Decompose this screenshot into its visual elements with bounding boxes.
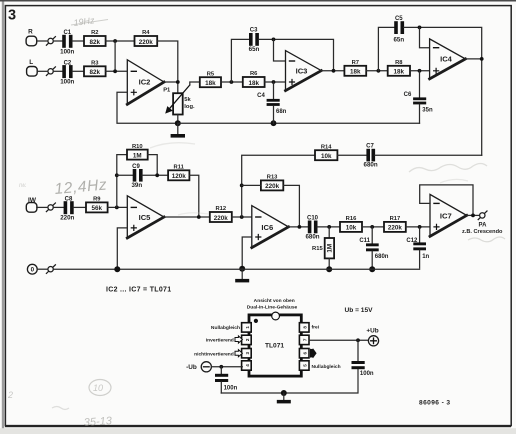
svg-text:18k: 18k — [394, 69, 405, 76]
resistor R14 — [315, 144, 337, 160]
node IC4 output — [480, 57, 484, 61]
wire pin 7 to +Ub — [309, 339, 368, 341]
svg-text:C2: C2 — [64, 60, 72, 66]
svg-text:220k: 220k — [265, 183, 280, 190]
wire IC2 + input to ground rail — [117, 92, 178, 123]
connector (PA output jack) — [478, 211, 487, 220]
svg-text:R10: R10 — [132, 144, 143, 150]
pin 6 — [299, 349, 309, 358]
svg-text:IC2: IC2 — [139, 78, 151, 87]
resistor R4 — [135, 30, 158, 46]
svg-text:100n: 100n — [224, 385, 238, 391]
svg-text:1M: 1M — [327, 244, 334, 253]
wire junction vertical R2 node to L node — [114, 41, 116, 71]
node P1 ground junction — [175, 120, 181, 126]
wire IC2 output — [164, 81, 178, 83]
wire 0V rail — [37, 268, 419, 270]
arrow into pin 2 — [235, 336, 242, 343]
svg-text:IC5: IC5 — [139, 213, 152, 222]
svg-text:86096 - 3: 86096 - 3 — [419, 400, 450, 407]
arrow into pin 3 — [235, 350, 242, 357]
svg-text:R5: R5 — [207, 71, 215, 77]
svg-text:1M: 1M — [133, 152, 142, 159]
capacitor C3 — [249, 28, 260, 54]
op-amp IC5 — [127, 196, 164, 238]
svg-text:z.B. Crescendo: z.B. Crescendo — [462, 229, 503, 235]
svg-text:R3: R3 — [91, 61, 99, 67]
node R15 tap — [327, 225, 331, 229]
connector (0 jack) — [46, 265, 55, 274]
op-amp IC4 — [430, 39, 466, 79]
capacitor C6 — [404, 71, 433, 123]
svg-text:nichtinvertierend: nichtinvertierend — [194, 351, 234, 357]
svg-text:4: 4 — [245, 364, 250, 367]
resistor R3 — [84, 61, 106, 77]
svg-text:R16: R16 — [346, 216, 357, 222]
svg-text:680n: 680n — [305, 234, 319, 241]
capacitor C1 — [60, 30, 74, 55]
svg-text:C9: C9 — [132, 164, 140, 170]
node C9 left — [115, 173, 119, 177]
pin 5 — [299, 361, 309, 370]
svg-text:C11: C11 — [359, 238, 370, 244]
wire node up to C3 — [231, 39, 249, 82]
svg-text:56k: 56k — [92, 205, 103, 212]
input terminal IW — [26, 197, 37, 212]
svg-text:68n: 68n — [276, 109, 287, 115]
svg-text:R8: R8 — [395, 60, 403, 66]
pin 2 — [242, 335, 252, 344]
terminal +Ub — [366, 327, 378, 346]
node C9/R10/R11 — [155, 173, 159, 177]
svg-text:18k: 18k — [205, 80, 216, 87]
capacitor 100n (right decoupling) — [352, 340, 374, 377]
svg-text:18k: 18k — [350, 69, 361, 76]
svg-text:220k: 220k — [139, 39, 154, 46]
svg-text:R6: R6 — [250, 71, 258, 77]
svg-text:IC2 ... IC7 = TL071: IC2 ... IC7 = TL071 — [106, 287, 171, 294]
svg-text:35-13: 35-13 — [83, 415, 113, 429]
node C4 tap — [272, 80, 276, 84]
resistor R15 — [312, 227, 334, 269]
svg-text:C6: C6 — [404, 92, 412, 98]
node decoupling tap left — [219, 365, 223, 369]
wire IC7 feedback loop — [420, 185, 473, 216]
svg-text:6: 6 — [303, 351, 308, 354]
wire P1 wiper to R5 — [190, 82, 200, 85]
wire IC6 output to C10 — [289, 226, 308, 228]
wire C5 to IC4 output vertical — [404, 27, 482, 155]
svg-text:680n: 680n — [364, 161, 378, 168]
capacitor C4 — [257, 82, 287, 123]
svg-text:65n: 65n — [393, 36, 404, 43]
label PA output — [462, 222, 503, 234]
wire bottom supply rail — [221, 369, 358, 393]
svg-text:R13: R13 — [267, 175, 278, 181]
svg-text:C12: C12 — [406, 238, 418, 244]
pin 3 — [242, 349, 252, 358]
svg-text:10k: 10k — [346, 225, 357, 232]
op-amp IC3 — [286, 51, 322, 91]
svg-text:log.: log. — [184, 104, 195, 110]
wire top ground rail — [178, 122, 420, 124]
node summing junction — [113, 69, 117, 73]
svg-text:220k: 220k — [388, 225, 403, 232]
svg-text:3: 3 — [245, 351, 250, 354]
svg-text:frei: frei — [312, 325, 320, 331]
capacitor C2 — [60, 60, 74, 85]
resistor R17 — [384, 216, 406, 232]
svg-text:P1: P1 — [163, 87, 171, 93]
node R11 output junction — [197, 215, 201, 219]
svg-text:C4: C4 — [257, 93, 265, 99]
svg-text:100n: 100n — [360, 371, 374, 377]
connector (R jack) — [46, 37, 55, 46]
svg-text:82k: 82k — [90, 39, 101, 46]
svg-text:39n: 39n — [131, 182, 142, 189]
svg-text:invertierend: invertierend — [206, 338, 234, 344]
resistor R13 — [261, 175, 283, 191]
wire R14 to C7 — [337, 154, 366, 156]
pin 1 — [242, 323, 252, 332]
op-amp IC2 — [127, 60, 164, 105]
wire R2 to R4 — [106, 40, 135, 42]
svg-text:C5: C5 — [395, 16, 403, 22]
resistor R9 — [86, 197, 108, 213]
svg-text:35n: 35n — [422, 107, 433, 113]
capacitor C8 — [60, 196, 74, 221]
svg-text:2: 2 — [245, 338, 250, 341]
svg-text:100n: 100n — [60, 48, 74, 55]
wire P1 bottom to ground — [177, 115, 179, 124]
wire R6 to IC3 + input — [265, 81, 286, 83]
node R13 output junction — [298, 225, 302, 229]
capacitor C12 — [406, 227, 429, 268]
node ground on rail — [281, 390, 287, 396]
svg-text:R11: R11 — [174, 165, 185, 171]
wire node up to C5 — [378, 27, 394, 70]
svg-text:R14: R14 — [321, 144, 332, 150]
wire IC6 + input to 0V rail — [242, 237, 252, 269]
resistor R12 — [210, 206, 232, 222]
resistor R7 — [344, 60, 366, 76]
wire R7 to R8 — [366, 70, 388, 72]
node C11 on rail — [369, 266, 375, 272]
svg-text:R: R — [28, 28, 33, 35]
input terminal 0 — [27, 264, 37, 274]
svg-text:Nullabgleich: Nullabgleich — [211, 325, 240, 331]
pin 4 — [242, 361, 252, 370]
potentiometer P1 — [163, 85, 195, 115]
wire R8 to IC4 + input — [410, 70, 430, 72]
node R13 tap — [240, 184, 244, 188]
svg-text:C8: C8 — [65, 196, 73, 202]
svg-text:R9: R9 — [93, 197, 101, 203]
node IC7 output — [471, 214, 475, 218]
resistor R5 — [200, 71, 221, 87]
node IC6 ground junction — [239, 266, 245, 272]
svg-text:10k: 10k — [321, 153, 332, 160]
svg-text:R12: R12 — [215, 206, 226, 212]
svg-text:65n: 65n — [249, 46, 260, 53]
svg-text:Ansicht von oben: Ansicht von oben — [254, 298, 295, 304]
svg-text:C3: C3 — [250, 28, 258, 34]
wire R10 right down to C9 node — [148, 155, 158, 176]
node R15 on rail — [326, 266, 332, 272]
svg-text:Nullabgleich: Nullabgleich — [312, 364, 341, 370]
svg-text:+Ub: +Ub — [366, 327, 378, 334]
svg-text:220n: 220n — [60, 215, 74, 222]
svg-text:120k: 120k — [172, 173, 187, 180]
pin 7 — [299, 335, 309, 344]
wire C8 to R9 — [73, 206, 86, 208]
wire R3 to IC2 inverting input — [106, 70, 128, 72]
wire C2 to R3 — [72, 70, 84, 72]
svg-text:TL071: TL071 — [265, 343, 284, 350]
resistor R16 — [340, 216, 362, 232]
wire -Ub to pin 4 — [211, 366, 242, 368]
op-amp IC6 — [252, 206, 289, 248]
svg-text:10: 10 — [93, 383, 103, 393]
resistor R10 — [127, 144, 148, 160]
wire IC5 + input to 0V rail — [117, 228, 127, 269]
svg-text:R7: R7 — [352, 60, 359, 66]
wire L to C2 — [37, 70, 62, 72]
wire IC3 output to R7 — [321, 70, 344, 72]
wire feedback to IC3 inverting input — [274, 39, 286, 61]
arrow out of pin 6 (output) — [310, 348, 317, 358]
svg-text:220k: 220k — [214, 215, 229, 222]
wire R17 to IC7 + input — [406, 226, 430, 228]
svg-text:R15: R15 — [312, 246, 323, 252]
svg-text:0: 0 — [31, 267, 35, 274]
op-amp IC7 — [430, 194, 467, 236]
capacitor C5 — [393, 16, 404, 44]
ground symbol below IC6 — [235, 269, 249, 283]
svg-text:IC4: IC4 — [440, 55, 453, 64]
wire C1 to R2 — [72, 40, 84, 42]
node R2/R4 junction — [113, 39, 117, 43]
svg-text:680n: 680n — [375, 254, 389, 260]
node C6 tap — [418, 69, 422, 73]
svg-text:L: L — [29, 59, 33, 66]
svg-text:Ub = 15V: Ub = 15V — [345, 307, 374, 314]
connector (L jack) — [46, 67, 55, 76]
resistor R2 — [84, 30, 106, 46]
capacitor C11 — [359, 227, 388, 269]
wire trunk up to R14 line — [242, 155, 315, 217]
wire C10 to R16 — [317, 226, 340, 228]
label pinout title — [247, 298, 298, 310]
node IC5 + on rail — [114, 266, 120, 272]
svg-text:100n: 100n — [60, 79, 74, 86]
svg-text:C1: C1 — [63, 30, 71, 36]
ground symbol below P1 — [171, 123, 185, 137]
svg-text:Dual-In-Line-Gehäuse: Dual-In-Line-Gehäuse — [247, 304, 298, 310]
wire R13 left — [242, 184, 261, 186]
node decoupling tap right — [356, 338, 360, 342]
node C11 tap — [370, 225, 374, 229]
node IC6 inverting — [240, 215, 244, 219]
input terminal R — [26, 28, 37, 45]
capacitor C9 — [117, 164, 168, 189]
svg-text:3: 3 — [8, 8, 16, 24]
svg-text:8: 8 — [303, 326, 308, 329]
svg-text:IC6: IC6 — [261, 223, 273, 232]
svg-text:rw.: rw. — [19, 183, 27, 189]
ground symbol below rail — [277, 393, 291, 403]
IC body TL071 (DIP-8 top view) — [249, 312, 301, 376]
wire R to C1 — [37, 40, 63, 42]
svg-text:-Ub: -Ub — [186, 364, 197, 371]
resistor R11 — [168, 165, 189, 181]
node IC5 inverting — [115, 206, 119, 210]
node C3/feedback — [272, 38, 276, 42]
terminal -Ub — [201, 362, 211, 372]
svg-text:5: 5 — [303, 364, 308, 367]
wire IC4 output — [465, 58, 481, 60]
svg-text:R4: R4 — [142, 30, 150, 36]
connector (IW jack) — [46, 203, 55, 212]
wire IC7 output — [467, 214, 480, 216]
svg-text:2: 2 — [7, 390, 13, 400]
wire R5 to R6 — [221, 81, 243, 83]
svg-text:18k: 18k — [248, 80, 259, 87]
capacitor C10 — [305, 216, 319, 241]
wire C3 to IC3 output vertical — [259, 39, 334, 71]
svg-text:IC3: IC3 — [296, 66, 308, 75]
node C4 on ground rail — [271, 120, 277, 126]
wire R9 to IC5 inverting input — [108, 206, 128, 208]
svg-text:82k: 82k — [90, 69, 101, 76]
wire R13 right down to IC6 output — [283, 185, 299, 227]
wire feedback to IC4 inverting input — [420, 27, 430, 47]
capacitor C7 — [364, 143, 378, 168]
svg-text:C7: C7 — [366, 143, 374, 149]
node IC2 output — [176, 80, 180, 84]
node R5/R6/C3 — [230, 80, 234, 84]
svg-text:PA: PA — [479, 222, 488, 228]
svg-text:1: 1 — [245, 326, 250, 329]
node R7/R8/C5 — [377, 69, 381, 73]
node C5/feedback — [418, 26, 422, 30]
wire R11 down to IC5 output — [189, 175, 198, 217]
wire R4 to output vertical — [157, 41, 178, 93]
wire IC5 output to R12 — [164, 216, 210, 218]
wire R16 to R17 — [362, 226, 384, 228]
svg-text:C10: C10 — [307, 216, 319, 222]
resistor R8 — [388, 60, 410, 76]
svg-text:IC7: IC7 — [440, 211, 452, 220]
input terminal L — [27, 59, 38, 76]
pin 8 — [299, 323, 309, 332]
wire C7 to IC4 output vertical — [375, 154, 482, 156]
node IC3 output feedback — [332, 69, 336, 73]
resistor R6 — [243, 71, 265, 87]
wire IW to C8 — [37, 206, 64, 208]
capacitor 100n (left decoupling) — [215, 367, 238, 393]
svg-text:R2: R2 — [91, 30, 98, 36]
svg-text:1n: 1n — [422, 254, 429, 260]
wire feedback trunk up — [117, 155, 127, 208]
svg-text:IW: IW — [28, 197, 37, 204]
svg-text:5k: 5k — [184, 97, 191, 103]
svg-text:R17: R17 — [390, 216, 401, 222]
svg-text:7: 7 — [303, 338, 308, 341]
wire R12 to IC6 inverting input — [232, 216, 252, 218]
node C12 tap — [418, 225, 422, 229]
